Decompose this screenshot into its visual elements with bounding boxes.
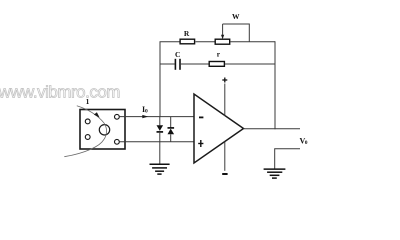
potentiometer W body (215, 39, 230, 44)
ground left (150, 164, 170, 174)
wire top input (119, 116, 194, 118)
diode D1 (157, 117, 164, 142)
label V0 (300, 137, 308, 147)
arc arrowhead (94, 112, 100, 117)
wire R to W (196, 41, 216, 43)
wire right feedback bus (274, 41, 276, 129)
svg-text:r: r (217, 50, 221, 59)
sensor body box (80, 110, 125, 150)
sensor bolt hole bottom-left (85, 135, 90, 140)
sensor terminal bottom-right (115, 139, 120, 144)
watermark text (0, 83, 120, 102)
svg-text:C: C (175, 50, 180, 59)
wire C to r (181, 63, 209, 65)
diode D2 (168, 117, 175, 142)
wire left feedback bus (159, 42, 161, 117)
wire diode branch to ground (159, 142, 161, 165)
label 1 (86, 97, 90, 106)
wire output (244, 128, 301, 130)
svg-text:1: 1 (86, 97, 90, 106)
capacitor C (175, 59, 180, 70)
sensor center circle (99, 125, 109, 135)
resistor R (180, 39, 195, 44)
rotation arc (64, 106, 106, 157)
sensor terminal top-right (115, 114, 120, 119)
op-amp U1 (194, 94, 244, 163)
wire top branch left (160, 41, 181, 43)
label r (217, 50, 221, 59)
current arrow I0 (142, 115, 148, 118)
svg-text:www.vibmro.com: www.vibmro.com (0, 83, 120, 102)
label C (175, 50, 180, 59)
wire C branch left (160, 63, 175, 65)
svg-text:R: R (184, 29, 190, 38)
label W (232, 12, 240, 21)
op-amp non-inverting input plus (198, 140, 203, 147)
positive supply pin (222, 78, 227, 117)
wire r to right bus (225, 63, 275, 65)
svg-text:W: W (232, 12, 240, 21)
op-amp inverting input dash (199, 116, 203, 118)
sensor bolt hole top-left (85, 119, 90, 124)
wire W to right bus (230, 41, 275, 43)
ground right (264, 169, 286, 178)
negative supply pin (222, 142, 227, 175)
svg-text:0: 0 (305, 140, 308, 146)
potentiometer W wiper arrow (221, 24, 224, 39)
wire output ground stub (275, 149, 300, 169)
svg-text:0: 0 (145, 109, 148, 115)
label I0 (142, 105, 148, 115)
wire bottom input (119, 141, 194, 143)
resistor r (209, 62, 224, 67)
label R (184, 29, 190, 38)
wiper loop wire (223, 24, 250, 42)
